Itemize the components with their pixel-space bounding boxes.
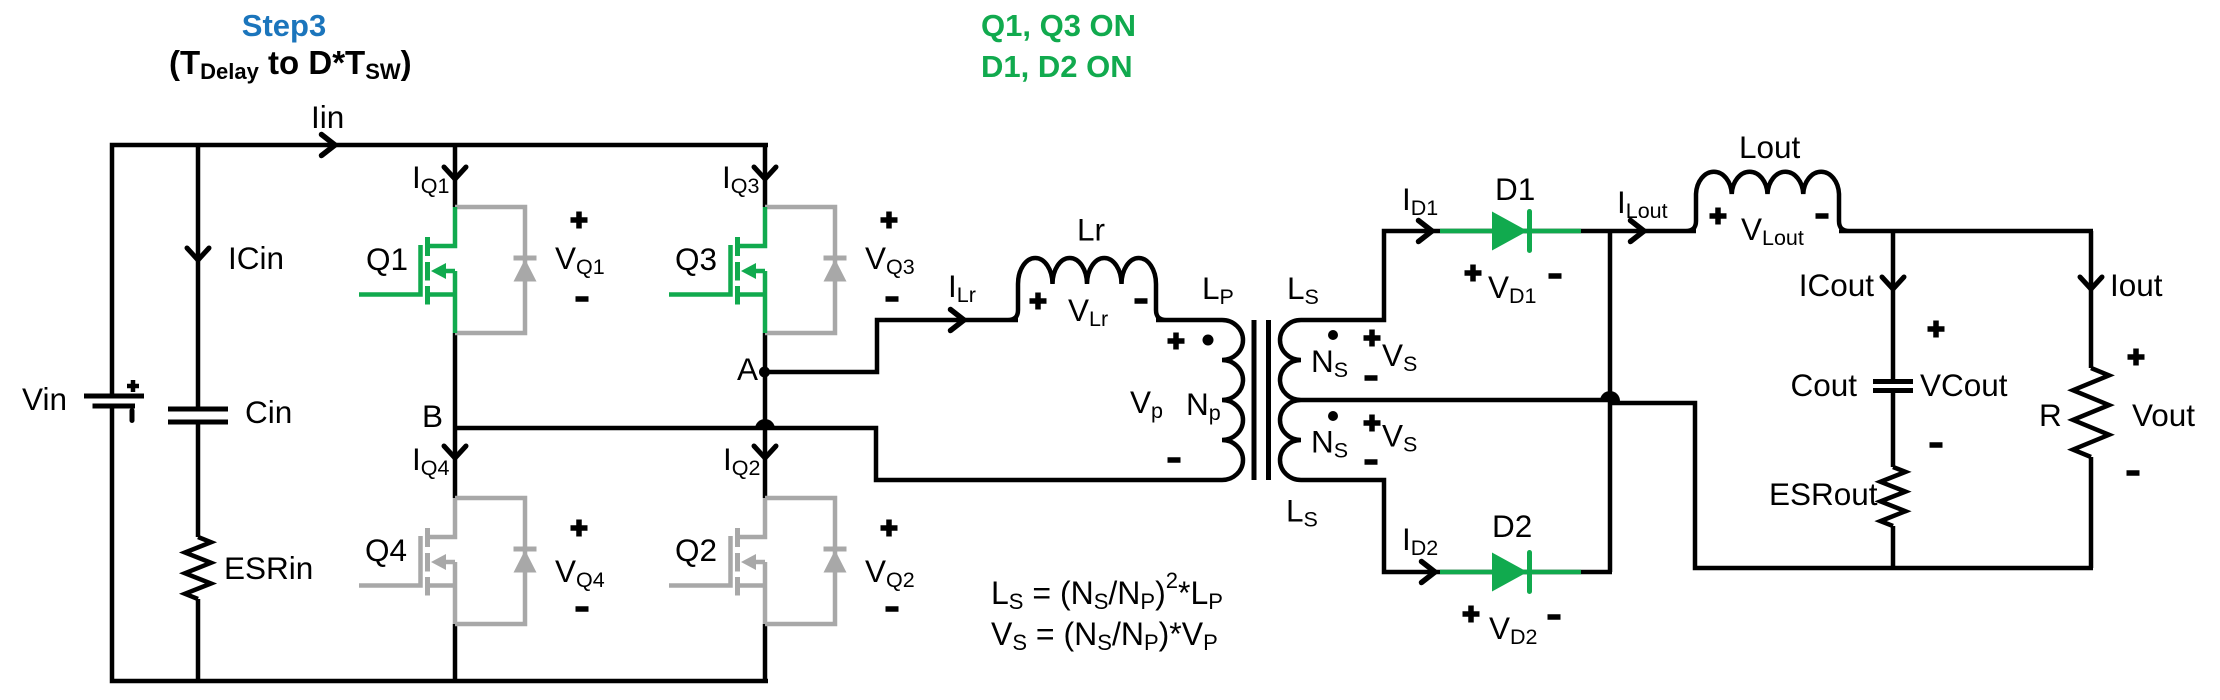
svg-text:ICin: ICin: [228, 240, 284, 276]
svg-text:Q1, Q3 ON: Q1, Q3 ON: [981, 8, 1136, 43]
svg-text:ESRout: ESRout: [1769, 476, 1878, 512]
svg-text:Q1: Q1: [366, 241, 408, 277]
svg-text:LS​: LS​: [1287, 270, 1319, 309]
svg-text:B: B: [422, 398, 443, 434]
svg-text:VCout: VCout: [1920, 367, 2008, 403]
svg-text:LP​: LP​: [1202, 270, 1234, 309]
svg-text:VLr​: VLr​: [1068, 292, 1108, 331]
svg-text:VQ2​: VQ2​: [865, 553, 915, 592]
svg-text:VS​ = (NS​/NP​)*VP​: VS​ = (NS​/NP​)*VP​: [991, 616, 1218, 655]
svg-text:Iout: Iout: [2110, 267, 2163, 303]
svg-text:ILr​: ILr​: [948, 268, 976, 307]
svg-text:NS​: NS​: [1311, 424, 1348, 463]
svg-text:ILout​: ILout​: [1617, 184, 1668, 223]
svg-text:LS​: LS​: [1286, 493, 1318, 532]
svg-text:VLout​: VLout​: [1741, 211, 1804, 250]
svg-text:Iin: Iin: [311, 99, 344, 135]
svg-text:A: A: [737, 351, 758, 387]
svg-text:VD1​: VD1​: [1488, 269, 1537, 308]
svg-text:Np​: Np​: [1186, 386, 1221, 425]
svg-text:D1: D1: [1495, 171, 1535, 207]
svg-text:NS​: NS​: [1311, 343, 1348, 382]
svg-text:VS​: VS​: [1382, 337, 1417, 376]
svg-text:(TDelay​ to D*TSW​): (TDelay​ to D*TSW​): [169, 44, 412, 84]
svg-text:Vin: Vin: [22, 381, 67, 417]
svg-text:Q2: Q2: [675, 532, 717, 568]
svg-text:Lout: Lout: [1739, 129, 1801, 165]
svg-text:LS​ = (NS​/NP​)2​*LP​: LS​ = (NS​/NP​)2​*LP​: [991, 568, 1223, 614]
svg-text:ID1​: ID1​: [1402, 181, 1438, 220]
svg-text:Q4: Q4: [365, 532, 407, 568]
svg-text:Lr: Lr: [1077, 212, 1105, 248]
svg-text:D2: D2: [1492, 508, 1532, 544]
svg-text:VD2​: VD2​: [1489, 610, 1538, 649]
svg-text:VQ1​: VQ1​: [555, 240, 605, 279]
svg-text:Cout: Cout: [1790, 367, 1857, 403]
svg-text:ICout: ICout: [1799, 267, 1875, 303]
svg-text:ESRin: ESRin: [224, 550, 313, 586]
svg-text:D1, D2 ON: D1, D2 ON: [981, 49, 1133, 84]
svg-text:Cin: Cin: [245, 394, 292, 430]
svg-text:R: R: [2039, 397, 2062, 433]
svg-text:Vp​: Vp​: [1130, 384, 1163, 423]
svg-text:VS​: VS​: [1382, 418, 1417, 457]
svg-text:VQ4​: VQ4​: [555, 553, 605, 592]
svg-text:VQ3​: VQ3​: [865, 240, 915, 279]
svg-text:Q3: Q3: [675, 241, 717, 277]
svg-text:Vout: Vout: [2132, 397, 2195, 433]
svg-text:ID2​: ID2​: [1402, 521, 1438, 560]
svg-text:Step3: Step3: [242, 8, 326, 43]
